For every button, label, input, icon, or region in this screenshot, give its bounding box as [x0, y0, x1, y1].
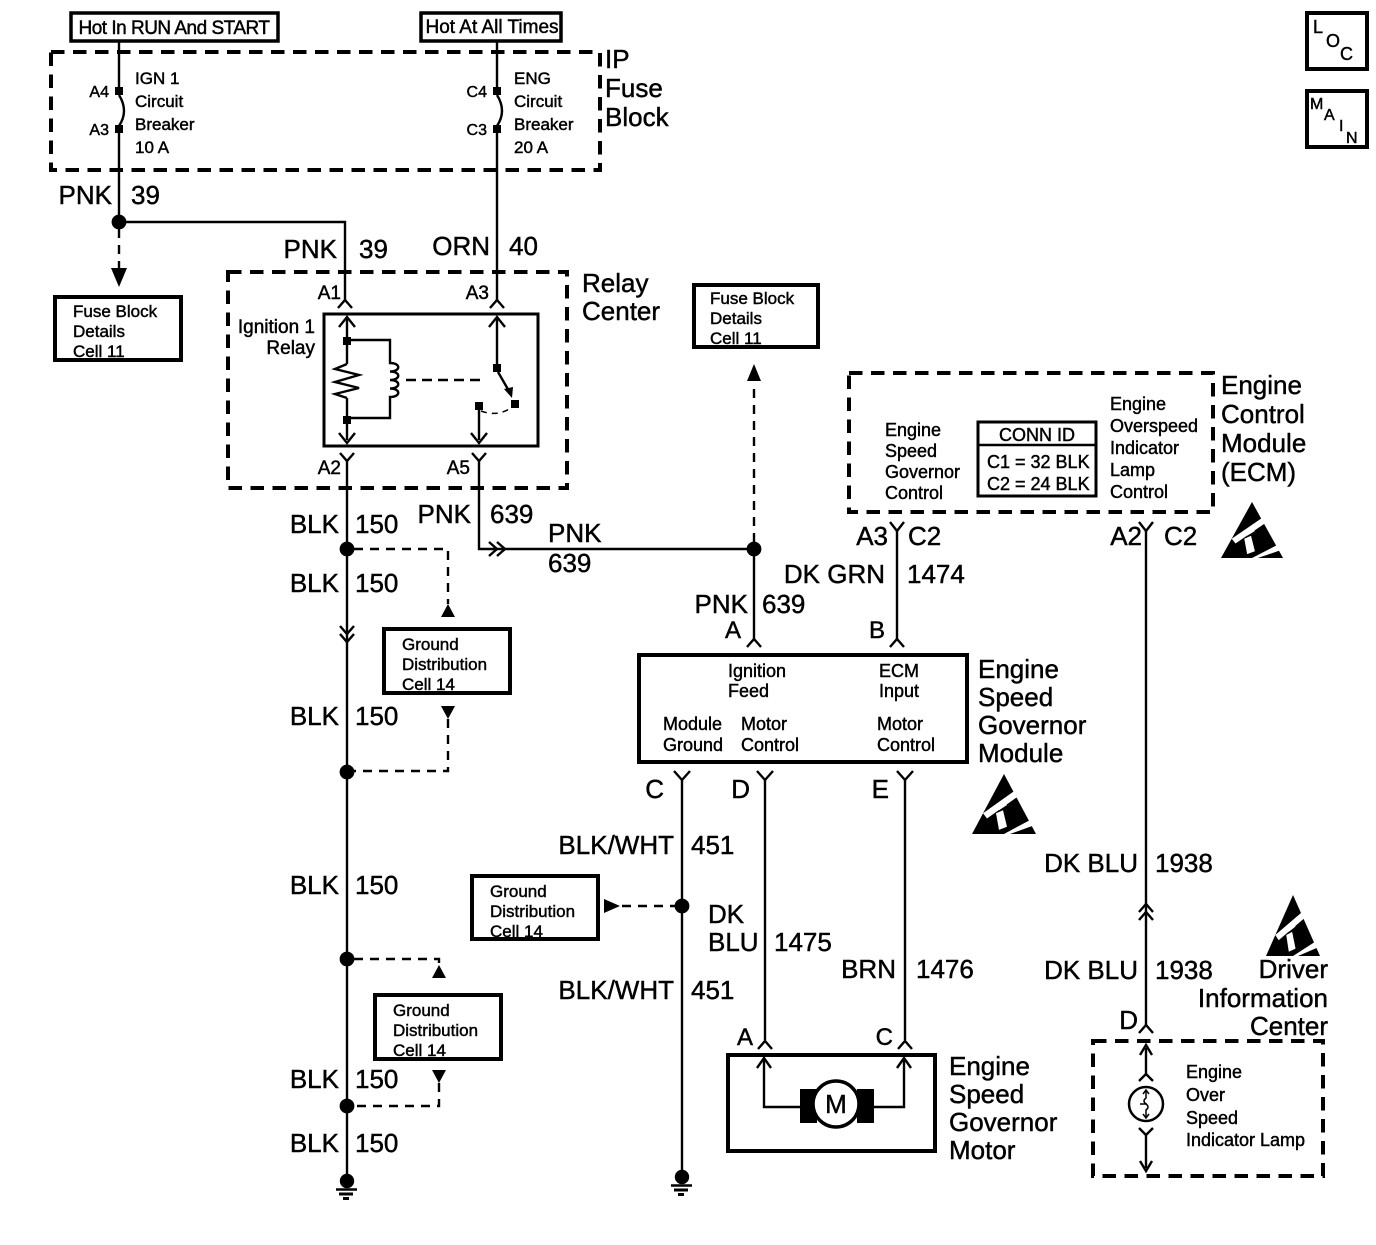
- header Hot At All Times: [421, 13, 561, 41]
- pin A3 C2 of ECM: [856, 521, 941, 551]
- svg-text:150: 150: [355, 701, 398, 731]
- IP Fuse Block dashed box: [51, 52, 600, 170]
- ESD symbol near ECM: [1221, 502, 1283, 558]
- svg-text:A2: A2: [318, 458, 341, 479]
- connector C of module: [674, 771, 690, 780]
- ground G ground symbol right: [671, 1170, 692, 1195]
- svg-text:DK BLU: DK BLU: [1044, 848, 1138, 878]
- relay switch common node: [493, 364, 501, 372]
- svg-text:DK: DK: [708, 899, 745, 929]
- wire PNK 639 from relay A5: [479, 461, 754, 549]
- connector A2: [340, 453, 354, 461]
- svg-text:BLK: BLK: [290, 509, 340, 539]
- svg-text:BLK/WHT: BLK/WHT: [558, 830, 674, 860]
- svg-text:D: D: [1119, 1005, 1138, 1035]
- relay K1 Ignition 1 Relay box: [324, 314, 538, 446]
- circuit breaker ENG 20A: [493, 87, 502, 133]
- connector A5: [472, 453, 486, 461]
- dashed return from Ground Distribution upper: [354, 706, 455, 771]
- wire junction to A1 branch: [119, 222, 345, 300]
- wire label DK BLU 1938 row1: [1044, 848, 1213, 878]
- connector B of module: [890, 639, 904, 647]
- relay contact dashed curve: [481, 408, 511, 413]
- DIC dashed box: [1093, 1041, 1323, 1176]
- Relay Center dashed box: [228, 272, 567, 488]
- svg-text:1938: 1938: [1155, 955, 1213, 985]
- motor brush left: [800, 1089, 817, 1123]
- wire label DK BLU 1938 row2: [1044, 955, 1213, 985]
- svg-text:Relay: Relay: [266, 338, 315, 359]
- svg-text:PNK: PNK: [695, 589, 749, 619]
- Ground Distribution Cell 14 box lower: [375, 995, 501, 1060]
- svg-text:40: 40: [509, 231, 538, 261]
- dashed branch to Ground Distribution lower: [354, 959, 446, 978]
- svg-text:451: 451: [691, 975, 734, 1005]
- dashed branch to Ground Distribution upper: [354, 549, 455, 617]
- wire label BLK 150 row6: [290, 1128, 399, 1158]
- svg-text:B: B: [869, 617, 885, 644]
- relay A5 terminal arrow down: [471, 410, 487, 443]
- wire ORN 40 from breaker C3 to relay A3: [496, 133, 498, 300]
- relay coil terminal arrow up: [339, 317, 355, 338]
- connector D of DIC: [1139, 1025, 1153, 1033]
- wire BLK/WHT 451 from module C to ground: [681, 780, 683, 1172]
- connector A1: [338, 300, 352, 308]
- relay resistor: [335, 345, 359, 416]
- wire PNK 39 from breaker A3 to junction: [118, 133, 120, 222]
- wire DK GRN 1474: [896, 531, 898, 639]
- wire BRN 1476 from module E to motor C: [904, 780, 906, 1040]
- wire label PNK 39: [59, 180, 160, 210]
- wire DK BLU 1938: [1145, 531, 1147, 1025]
- junction BLK 150 upper: [340, 542, 355, 557]
- svg-text:39: 39: [131, 180, 160, 210]
- svg-text:C: C: [1340, 44, 1353, 64]
- relay coil winding: [351, 340, 398, 418]
- connector A3 C2: [890, 522, 904, 531]
- svg-text:1474: 1474: [907, 559, 965, 589]
- wire label BLK 150 row2: [290, 568, 399, 598]
- wire label PNK 39 second: [284, 234, 388, 264]
- svg-text:D: D: [731, 774, 750, 804]
- circuit breaker IGN 1 10A: [115, 87, 124, 133]
- wire label PNK 639 horizontal: [548, 518, 602, 578]
- svg-text:M: M: [825, 1089, 847, 1119]
- svg-text:ORN: ORN: [432, 231, 490, 261]
- svg-text:I: I: [1339, 118, 1343, 135]
- lamp ground arrow down: [1139, 1128, 1153, 1171]
- svg-text:A4: A4: [89, 84, 109, 101]
- svg-text:Ignition 1: Ignition 1: [238, 317, 315, 338]
- svg-text:ModuleGround: ModuleGround: [663, 714, 723, 755]
- dashed link Ground Distribution to BLK/WHT junction: [604, 899, 676, 913]
- svg-text:E: E: [872, 774, 889, 804]
- svg-text:A5: A5: [447, 458, 470, 479]
- svg-text:BLK: BLK: [290, 568, 340, 598]
- header Hot In RUN And START: [71, 13, 278, 41]
- svg-text:M: M: [1310, 96, 1323, 113]
- relay coil terminal arrow down: [339, 424, 355, 443]
- relay actuation dashed link: [406, 379, 486, 381]
- svg-text:DK GRN: DK GRN: [784, 559, 885, 589]
- wire label PNK 639 vertical: [695, 589, 806, 619]
- dashed arrow to Fuse Block Details second: [747, 364, 761, 542]
- ECM U1 Engine Control Module dashed box: [849, 373, 1213, 512]
- junction BLK/WHT 451: [675, 899, 690, 914]
- dashed arrow to Fuse Block Details: [111, 229, 127, 287]
- lamp feed arrow up: [1139, 1045, 1153, 1081]
- wire PNK 639 junction to module pin A: [753, 549, 755, 639]
- relay A5 contact node: [475, 402, 483, 410]
- motor brush right: [857, 1089, 874, 1123]
- connector E of module: [897, 771, 913, 780]
- svg-text:Hot In RUN And START: Hot In RUN And START: [79, 18, 271, 39]
- pin A2 C2 of ECM: [1110, 521, 1197, 551]
- motor armature M: [813, 1081, 859, 1127]
- svg-text:639: 639: [762, 589, 805, 619]
- svg-text:O: O: [1326, 31, 1340, 51]
- connector A of module: [747, 639, 761, 647]
- wire DK BLU 1475 from module D to motor A: [764, 780, 766, 1040]
- svg-text:C2: C2: [1164, 521, 1197, 551]
- ground G ground symbol left: [336, 1174, 357, 1199]
- Fuse Block Details Cell 11 box: [55, 297, 181, 361]
- CONN ID table: [978, 422, 1096, 496]
- wire from Hot In RUN to breaker A4: [118, 41, 120, 88]
- ESD symbol near module: [972, 774, 1036, 834]
- relay coil top node: [343, 337, 351, 345]
- svg-text:C4: C4: [467, 84, 488, 101]
- svg-text:C: C: [876, 1024, 893, 1051]
- relay switch blade: [498, 372, 513, 398]
- junction BLK 150 second: [340, 765, 355, 780]
- junction BLK 150 fourth: [340, 1099, 355, 1114]
- svg-text:39: 39: [359, 234, 388, 264]
- svg-text:451: 451: [691, 830, 734, 860]
- svg-text:150: 150: [355, 568, 398, 598]
- svg-text:PNK: PNK: [548, 518, 602, 548]
- svg-text:CONN ID: CONN ID: [999, 425, 1075, 445]
- svg-text:A3: A3: [89, 122, 109, 139]
- wire label BRN 1476: [841, 954, 974, 984]
- svg-text:L: L: [1313, 17, 1323, 37]
- connector D of module: [757, 771, 773, 780]
- svg-text:BRN: BRN: [841, 954, 896, 984]
- relay switch contact node: [511, 400, 519, 408]
- wire label BLK 150 row1: [290, 509, 399, 539]
- svg-text:C1 = 32 BLK: C1 = 32 BLK: [987, 452, 1090, 472]
- svg-text:1476: 1476: [916, 954, 974, 984]
- svg-text:PNK: PNK: [59, 180, 113, 210]
- svg-text:BLU: BLU: [708, 927, 759, 957]
- svg-text:BLK: BLK: [290, 701, 340, 731]
- svg-text:C: C: [645, 774, 664, 804]
- svg-text:150: 150: [355, 1064, 398, 1094]
- wire size break chevrons on BLK 150: [340, 626, 354, 642]
- svg-text:BLK: BLK: [290, 1064, 340, 1094]
- svg-text:ECMInput: ECMInput: [879, 661, 919, 701]
- lamp L1 Engine Over Speed Indicator Lamp: [1129, 1087, 1163, 1121]
- svg-text:PNK: PNK: [418, 499, 472, 529]
- ESD symbol near DIC: [1266, 895, 1320, 956]
- wire label BLK/WHT 451 row2: [558, 975, 734, 1005]
- svg-text:150: 150: [355, 509, 398, 539]
- connector C of motor: [898, 1041, 912, 1049]
- wire size break chevrons on DK BLU: [1139, 904, 1153, 920]
- dashed return from Ground Distribution lower: [354, 1070, 446, 1106]
- junction PNK 639: [747, 542, 762, 557]
- wire from Hot At All Times to breaker C4: [496, 41, 498, 88]
- svg-text:DK BLU: DK BLU: [1044, 955, 1138, 985]
- motor lead C arrow: [873, 1058, 911, 1107]
- wire size break chevrons on PNK 639: [489, 542, 505, 556]
- svg-text:Hot At All Times: Hot At All Times: [425, 17, 558, 38]
- MAIN reference box: [1307, 91, 1367, 147]
- svg-text:A: A: [737, 1024, 753, 1051]
- wire label BLK 150 row3: [290, 701, 399, 731]
- svg-text:C2: C2: [908, 521, 941, 551]
- svg-text:1938: 1938: [1155, 848, 1213, 878]
- svg-text:A: A: [1324, 107, 1335, 124]
- connector A2 C2: [1139, 522, 1153, 531]
- svg-text:C3: C3: [467, 122, 488, 139]
- wire label BLK 150 row4: [290, 870, 399, 900]
- junction BLK 150 third: [340, 952, 355, 967]
- svg-text:C2 = 24 BLK: C2 = 24 BLK: [987, 474, 1090, 494]
- relay switch arrow up: [489, 317, 505, 364]
- connector A3: [490, 300, 504, 308]
- wire label DK GRN 1474: [784, 559, 965, 589]
- wire label PNK 639: [418, 499, 534, 529]
- motor M1 Engine Speed Governor Motor box: [728, 1055, 935, 1151]
- junction PNK 39: [112, 215, 127, 230]
- wire label BLK/WHT 451 row1: [558, 830, 734, 860]
- wire BLK 150 from relay A2 to ground: [346, 461, 348, 1177]
- svg-text:639: 639: [490, 499, 533, 529]
- Ground Distribution Cell 14 box right: [472, 876, 598, 941]
- Ground Distribution Cell 14 box upper: [384, 629, 510, 694]
- connector A of motor: [758, 1041, 772, 1049]
- svg-text:N: N: [1346, 130, 1358, 147]
- LOC reference box: [1307, 13, 1367, 69]
- svg-text:A2: A2: [1110, 521, 1142, 551]
- svg-text:A3: A3: [856, 521, 888, 551]
- Fuse Block Details Cell 11 box second: [694, 285, 818, 348]
- svg-text:1475: 1475: [774, 927, 832, 957]
- module U2 Engine Speed Governor Module box: [639, 655, 967, 762]
- wire label BLK 150 row5: [290, 1064, 399, 1094]
- svg-text:A1: A1: [318, 283, 341, 304]
- svg-text:BLK: BLK: [290, 870, 340, 900]
- svg-text:A: A: [725, 617, 741, 644]
- svg-text:BLK/WHT: BLK/WHT: [558, 975, 674, 1005]
- svg-text:PNK: PNK: [284, 234, 338, 264]
- motor lead A arrow: [757, 1058, 800, 1107]
- svg-text:150: 150: [355, 1128, 398, 1158]
- wire label ORN 40: [432, 231, 538, 261]
- svg-text:150: 150: [355, 870, 398, 900]
- wire label DK BLU 1475: [708, 899, 832, 957]
- svg-text:EngineControlModule(ECM): EngineControlModule(ECM): [1221, 370, 1306, 487]
- svg-text:639: 639: [548, 548, 591, 578]
- svg-text:A3: A3: [466, 283, 489, 304]
- svg-text:BLK: BLK: [290, 1128, 340, 1158]
- relay coil bottom node: [343, 416, 351, 424]
